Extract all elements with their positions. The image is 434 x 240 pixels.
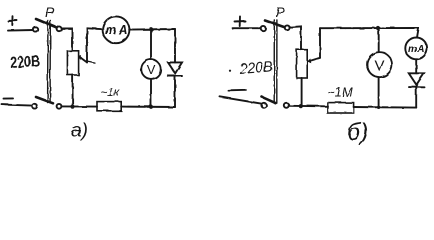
minus terminal (circuit a) <box>4 97 14 99</box>
wire <box>354 106 417 109</box>
wire <box>121 106 175 108</box>
rheostat R1 body <box>67 51 78 75</box>
switch P2 contact (bottom-left) <box>261 103 266 108</box>
switch P2 contact (top-left) <box>261 26 266 31</box>
wire <box>87 27 103 30</box>
diode VD1 (circuit a) <box>168 62 182 76</box>
switch P contact (bottom-left) <box>32 104 37 109</box>
wire <box>415 87 417 108</box>
svg-text:V: V <box>147 62 156 77</box>
svg-text:220В: 220В <box>10 53 41 72</box>
wire <box>150 79 152 107</box>
wire <box>61 28 72 50</box>
switch P2 contact (top-right) <box>285 25 290 30</box>
voltmeter V2 (circuit b) <box>367 52 392 77</box>
switch P2 contact (bottom-right) <box>284 103 289 108</box>
switch P blade (bottom) <box>36 97 53 103</box>
node: rheostat-bottom junction <box>70 105 74 109</box>
wire <box>378 28 380 52</box>
switch P2 blade (top) <box>265 21 284 28</box>
battery label 220V (circuit b) <box>229 58 273 78</box>
wire <box>174 76 176 107</box>
node: voltmeter top junction <box>149 27 153 31</box>
wire <box>415 59 417 73</box>
svg-text:P: P <box>276 4 286 20</box>
minus terminal (circuit b) <box>228 89 246 92</box>
rheostat R3 wiper arrow <box>308 28 320 62</box>
wire <box>220 97 261 104</box>
rheostat R1 wiper arrow <box>79 28 95 62</box>
voltmeter V (circuit a) <box>141 59 160 78</box>
wire <box>129 28 175 31</box>
wire <box>320 27 419 29</box>
svg-text:б): б) <box>347 119 369 146</box>
milliammeter mA (circuit a) <box>103 16 130 43</box>
rheostat R3 body <box>297 50 308 78</box>
svg-text:V: V <box>375 57 385 74</box>
wire <box>378 77 380 107</box>
svg-text:~1к: ~1к <box>100 85 121 99</box>
wire <box>417 28 419 38</box>
wire <box>8 29 33 32</box>
plus terminal (circuit a) <box>8 16 17 25</box>
switch P contact (top-right) <box>57 26 62 31</box>
switch P2 linkage <box>274 20 277 103</box>
switch P2 blade (bottom) <box>262 97 276 103</box>
wire <box>290 26 302 49</box>
resistor R2 body (~1k) <box>97 102 121 111</box>
node: voltmeter bottom junction <box>149 105 153 109</box>
milliammeter mA2 (circuit b) <box>405 38 427 60</box>
switch P contact (top-left) <box>33 27 38 32</box>
svg-text:mA: mA <box>105 23 128 37</box>
diode VD2 (circuit b) <box>409 73 425 87</box>
node: voltmeter V2 bottom junction <box>377 106 380 109</box>
svg-text:~1М: ~1М <box>327 85 353 100</box>
wire <box>233 27 261 29</box>
wire <box>174 29 176 62</box>
switch P contact (bottom-right) <box>57 104 62 109</box>
node: rheostat R3 bottom junction <box>299 104 303 108</box>
svg-text:mA: mA <box>408 44 425 55</box>
svg-text:220В: 220В <box>238 58 273 78</box>
svg-text:P: P <box>45 4 55 20</box>
svg-text:а): а) <box>71 121 88 142</box>
node: voltmeter V2 top junction <box>376 26 380 30</box>
wire <box>150 29 152 59</box>
wire <box>289 105 328 108</box>
switch P blade (top) <box>36 19 57 27</box>
wire <box>301 78 303 106</box>
wire <box>2 105 32 106</box>
plus terminal (circuit b) <box>235 17 246 27</box>
wire <box>61 105 97 107</box>
switch P linkage <box>48 21 51 103</box>
wire <box>72 75 74 107</box>
resistor R4 body (~1M) <box>327 103 353 113</box>
